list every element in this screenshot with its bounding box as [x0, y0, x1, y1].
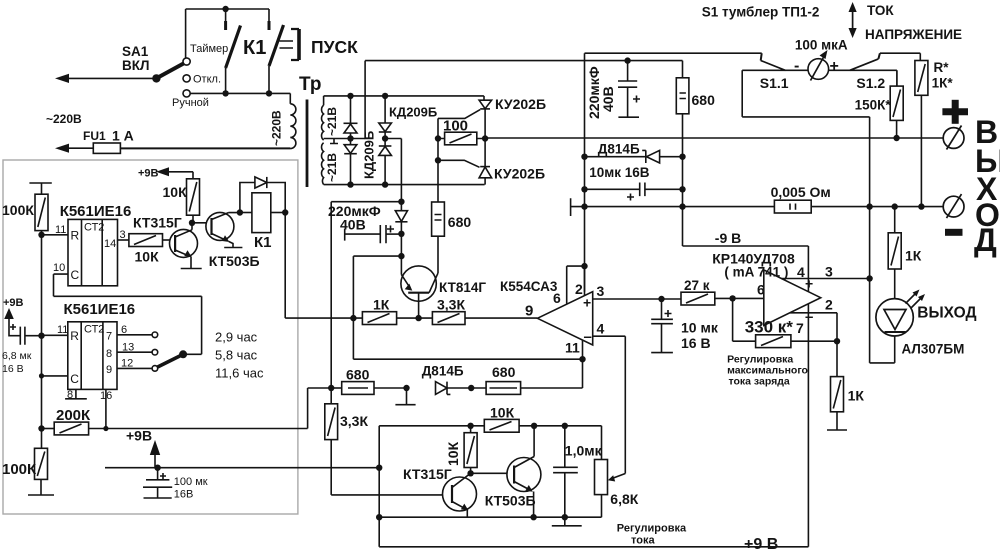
svg-text:+9 В: +9 В: [744, 536, 778, 553]
svg-text:КД209Б: КД209Б: [362, 131, 377, 179]
svg-text:16: 16: [100, 390, 112, 402]
svg-text:Д814Б: Д814Б: [422, 364, 464, 379]
svg-text:2,9 час: 2,9 час: [215, 330, 258, 345]
svg-text:S1.2: S1.2: [856, 75, 885, 91]
svg-text:4: 4: [597, 321, 605, 337]
svg-text:К1: К1: [243, 37, 266, 59]
svg-text:ВЫХОД: ВЫХОД: [917, 305, 976, 322]
svg-text:6,8К: 6,8К: [610, 491, 638, 507]
svg-text:1К*: 1К*: [932, 76, 954, 91]
svg-text:40В: 40В: [600, 86, 616, 112]
svg-text:~220В: ~220В: [270, 110, 284, 146]
svg-text:100 мк: 100 мк: [174, 476, 208, 488]
svg-text:10 мк: 10 мк: [681, 320, 719, 336]
svg-text:1,0мк: 1,0мк: [565, 443, 603, 459]
svg-text:2: 2: [575, 281, 583, 297]
svg-text:1 А: 1 А: [112, 128, 134, 144]
svg-text:КД209Б: КД209Б: [389, 105, 437, 120]
svg-text:3,3К: 3,3К: [437, 297, 465, 313]
svg-text:6: 6: [757, 282, 765, 298]
svg-text:КТ814Г: КТ814Г: [439, 280, 486, 295]
svg-text:16В: 16В: [174, 489, 194, 501]
svg-text:150К*: 150К*: [855, 98, 892, 113]
svg-text:SA1: SA1: [122, 44, 149, 59]
svg-text:8: 8: [67, 389, 73, 401]
svg-text:FU1: FU1: [83, 129, 106, 143]
svg-text:12: 12: [121, 358, 133, 370]
svg-text:R: R: [71, 229, 80, 243]
svg-text:ПУСК: ПУСК: [311, 37, 358, 57]
svg-text:КТ503Б: КТ503Б: [209, 253, 260, 269]
svg-text:100: 100: [443, 118, 468, 135]
svg-text:Таймер: Таймер: [190, 43, 228, 55]
svg-text:10К: 10К: [445, 441, 461, 466]
svg-text:4: 4: [797, 264, 805, 280]
svg-text:–: –: [584, 329, 592, 346]
svg-text:3,3К: 3,3К: [340, 413, 368, 429]
svg-text:КУ202Б: КУ202Б: [495, 96, 546, 112]
svg-text:S1.1: S1.1: [760, 75, 789, 91]
svg-text:КТ315Г: КТ315Г: [133, 215, 182, 231]
svg-text:Д814Б: Д814Б: [598, 142, 640, 157]
svg-text:5,8 час: 5,8 час: [215, 348, 258, 363]
svg-text:2: 2: [825, 297, 833, 313]
svg-text:8: 8: [106, 348, 112, 360]
svg-text:Д: Д: [974, 222, 997, 258]
svg-text:+: +: [830, 58, 839, 75]
svg-text:7: 7: [106, 331, 112, 343]
svg-text:200К: 200К: [56, 407, 91, 424]
svg-text:–: –: [805, 309, 813, 326]
svg-text:НАПРЯЖЕНИЕ: НАПРЯЖЕНИЕ: [865, 27, 962, 42]
svg-text:Регулировка: Регулировка: [617, 523, 687, 535]
svg-text:100К: 100К: [2, 202, 34, 218]
svg-text:R: R: [70, 329, 79, 343]
svg-text:~21В: ~21В: [325, 107, 339, 136]
svg-text:~21В: ~21В: [325, 153, 339, 182]
svg-text:680: 680: [346, 367, 370, 383]
svg-text:К554СА3: К554СА3: [500, 279, 558, 294]
svg-text:+9В: +9В: [138, 168, 159, 180]
svg-text:11: 11: [565, 340, 580, 356]
svg-text:К561ИЕ16: К561ИЕ16: [60, 203, 132, 220]
svg-text:АЛ307БМ: АЛ307БМ: [902, 342, 965, 357]
svg-text:11: 11: [57, 324, 68, 336]
svg-text:Откл.: Откл.: [193, 74, 221, 86]
svg-text:10: 10: [53, 262, 65, 274]
svg-text:6: 6: [121, 324, 127, 336]
svg-text:11: 11: [55, 224, 66, 236]
svg-text:1К: 1К: [848, 388, 865, 404]
svg-text:11,6 час: 11,6 час: [215, 366, 264, 381]
svg-text:КУ202Б: КУ202Б: [494, 166, 545, 182]
svg-text:40В: 40В: [340, 217, 366, 233]
svg-text:~220В: ~220В: [46, 112, 82, 126]
svg-text:К1: К1: [254, 234, 272, 251]
svg-text:-9 В: -9 В: [715, 230, 741, 246]
svg-text:13: 13: [122, 342, 134, 354]
svg-text:100 мкА: 100 мкА: [795, 38, 848, 53]
svg-text:тока: тока: [631, 535, 655, 547]
svg-text:680: 680: [448, 214, 472, 230]
svg-text:-: -: [794, 58, 799, 75]
svg-text:( mA 741 ): ( mA 741 ): [724, 265, 788, 280]
svg-text:КТ503Б: КТ503Б: [485, 493, 536, 509]
svg-text:+9В: +9В: [3, 297, 24, 309]
svg-text:10мк 16В: 10мк 16В: [589, 165, 650, 180]
svg-text:C: C: [71, 268, 80, 282]
svg-text:+9В: +9В: [126, 428, 152, 444]
svg-text:СТ2: СТ2: [84, 222, 104, 234]
svg-text:1К: 1К: [905, 248, 922, 264]
svg-text:3: 3: [825, 264, 833, 280]
svg-text:К561ИЕ16: К561ИЕ16: [64, 301, 136, 318]
svg-text:100К: 100К: [2, 461, 37, 478]
svg-text:ТОК: ТОК: [867, 3, 894, 18]
svg-text:6: 6: [553, 290, 561, 306]
svg-text:16 В: 16 В: [2, 363, 24, 375]
svg-text:КТ315Г: КТ315Г: [403, 466, 452, 482]
svg-text:Тр: Тр: [299, 74, 322, 95]
svg-text:9: 9: [106, 364, 112, 376]
svg-text:ВКЛ: ВКЛ: [122, 58, 149, 73]
svg-text:14: 14: [104, 238, 116, 250]
svg-text:680: 680: [692, 92, 716, 108]
svg-text:СТ2: СТ2: [84, 324, 104, 336]
svg-text:3: 3: [120, 229, 126, 241]
svg-text:27 к: 27 к: [684, 278, 710, 293]
svg-text:10К: 10К: [163, 184, 188, 200]
svg-text:680: 680: [492, 364, 516, 380]
svg-text:9: 9: [525, 303, 533, 320]
svg-text:Ручной: Ручной: [172, 97, 209, 109]
svg-text:330 к*: 330 к*: [745, 318, 794, 337]
svg-text:16 В: 16 В: [681, 335, 711, 351]
svg-text:тока заряда: тока заряда: [729, 376, 790, 388]
svg-text:S1 тумблер ТП1-2: S1 тумблер ТП1-2: [702, 5, 820, 20]
svg-text:0,005 Ом: 0,005 Ом: [771, 184, 831, 200]
svg-text:3: 3: [597, 283, 605, 299]
svg-text:10К: 10К: [135, 249, 160, 265]
svg-text:1К: 1К: [373, 297, 390, 313]
svg-text:7: 7: [796, 320, 804, 336]
svg-text:+: +: [583, 295, 591, 311]
svg-text:6,8 мк: 6,8 мк: [2, 350, 32, 362]
svg-text:C: C: [70, 372, 79, 386]
svg-text:10К: 10К: [490, 405, 515, 421]
svg-text:R*: R*: [934, 60, 950, 75]
